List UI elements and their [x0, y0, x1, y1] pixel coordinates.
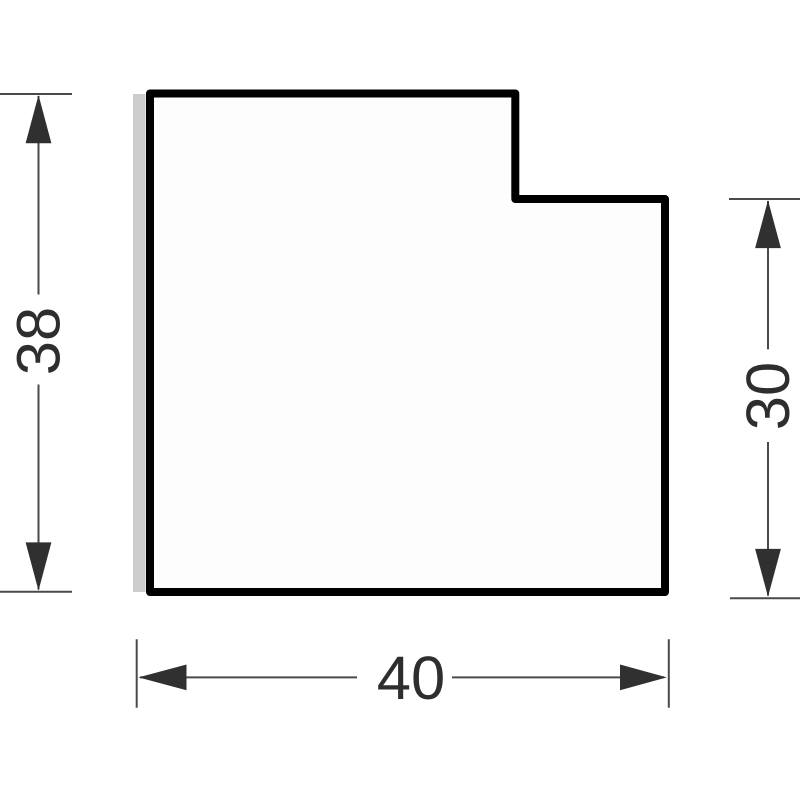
dim 30: dimension line lower segment — [767, 442, 769, 596]
dim 40: left arrowhead — [139, 665, 187, 691]
svg-text:30: 30 — [734, 362, 800, 430]
svg-text:38: 38 — [5, 307, 74, 375]
dim 30: top extension line — [729, 198, 800, 200]
dim 38: up arrowhead — [26, 95, 52, 143]
dim 38: top extension line — [0, 93, 72, 95]
dim 40: right arrowhead — [620, 665, 667, 691]
left shaded face strip — [133, 94, 146, 592]
dim 38: dimension line upper segment — [38, 96, 40, 295]
dim 30: bottom extension line — [730, 597, 800, 599]
dim 38: bottom extension line — [0, 591, 72, 593]
dim 40: right tick extension line — [668, 639, 670, 708]
dim 40: dimension line left segment — [140, 676, 357, 678]
dim 30: dimension line upper segment — [767, 201, 769, 349]
dim 30: up arrowhead — [755, 200, 781, 248]
dim 38: down arrowhead — [26, 542, 52, 590]
dim 40: dimension line right segment — [452, 676, 664, 678]
profile outline (notched square) — [150, 94, 665, 593]
dim 40: left tick extension line — [136, 639, 138, 708]
dim 30: down arrowhead — [755, 549, 781, 597]
svg-text:40: 40 — [377, 644, 445, 713]
dim 38: dimension line lower segment — [38, 385, 40, 590]
